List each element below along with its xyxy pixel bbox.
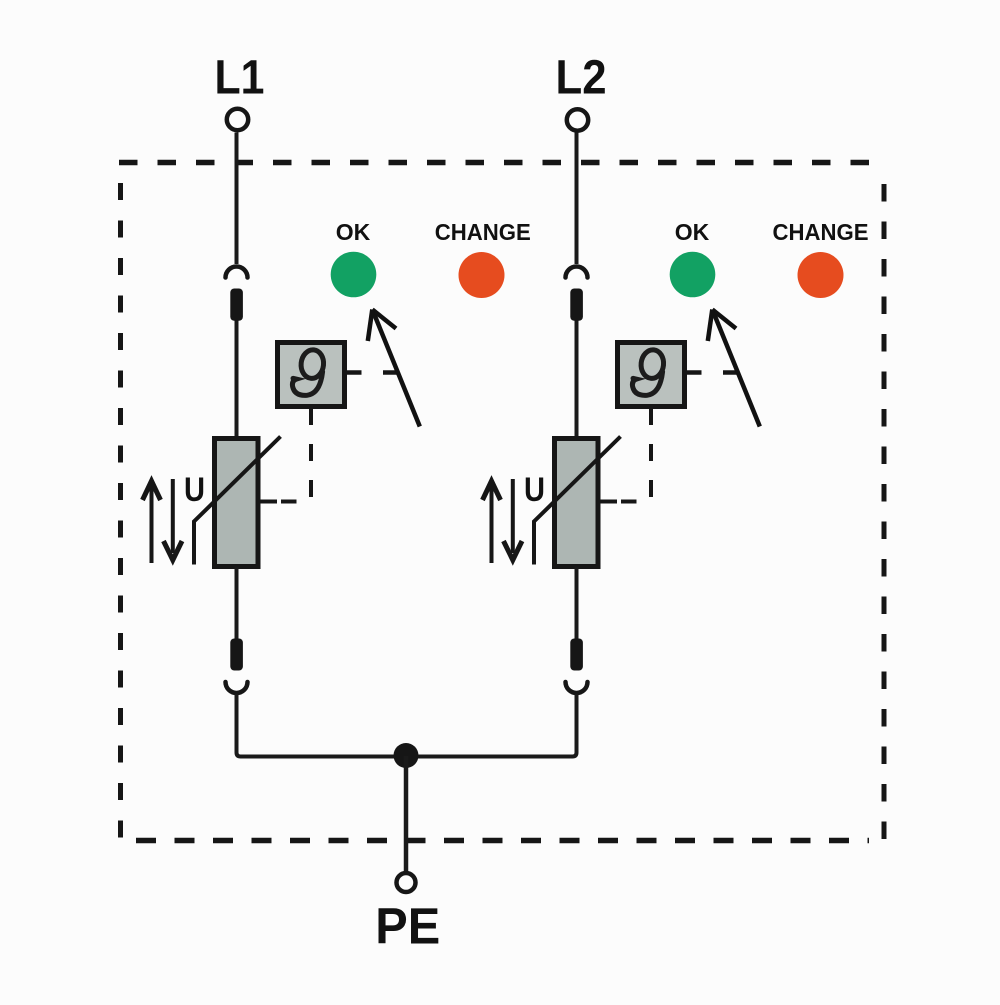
- wire bottom channel 1: [237, 694, 407, 757]
- disconnector arc bottom channel 1: [226, 682, 248, 693]
- theta glyph channel 2: [631, 348, 665, 397]
- varistor diagonal channel 1: [194, 437, 281, 565]
- status arrow channel 1: [368, 310, 420, 427]
- svg-text:PE: PE: [375, 898, 440, 955]
- tab right of sensor box channel 1: [345, 370, 362, 375]
- enclosure dashed border top: [119, 160, 884, 166]
- terminal PE circle: [397, 873, 416, 892]
- disconnector bar top L1: [230, 289, 243, 321]
- voltage up arrow channel 2: [483, 481, 501, 563]
- svg-text:OK: OK: [675, 219, 710, 245]
- disconnector bar bottom channel 2: [570, 639, 583, 671]
- disconnector arc top L1: [226, 267, 248, 278]
- disconnector arc bottom channel 2: [566, 682, 588, 693]
- svg-text:CHANGE: CHANGE: [435, 219, 531, 245]
- wire L1 top: [235, 133, 239, 265]
- svg-text:OK: OK: [336, 219, 371, 245]
- svg-text:U: U: [524, 471, 545, 509]
- LED OK green channel 1: [331, 252, 377, 298]
- status arrow channel 2: [708, 310, 760, 427]
- terminal L1 circle: [227, 109, 248, 130]
- wire junction to PE terminal: [404, 756, 409, 871]
- wire L2 top: [575, 133, 579, 265]
- theta glyph channel 1: [291, 348, 325, 397]
- enclosure dashed border bottom: [136, 838, 869, 844]
- dash of sensor link channel 2: [723, 370, 738, 375]
- svg-text:U: U: [184, 471, 205, 509]
- wire varistor to bottom bar channel 2: [575, 567, 579, 641]
- LED CHANGE red channel 1: [459, 252, 505, 298]
- dashed thermal link channel 1: [281, 408, 311, 502]
- LED CHANGE red channel 2: [798, 252, 844, 298]
- junction node PE: [394, 743, 419, 768]
- temperature sensor box channel 1: [278, 343, 345, 407]
- enclosure dashed border right: [882, 184, 887, 839]
- voltage down arrow channel 2: [504, 479, 523, 560]
- disconnector bar bottom channel 1: [230, 639, 243, 671]
- svg-text:L2: L2: [556, 52, 607, 105]
- svg-text:L1: L1: [215, 52, 265, 105]
- svg-text:CHANGE: CHANGE: [773, 219, 869, 245]
- varistor tab channel 1: [258, 500, 277, 504]
- wire L1 to varistor: [235, 321, 239, 441]
- disconnector arc top L2: [566, 267, 588, 278]
- wire L2 to varistor: [575, 321, 579, 441]
- dash of sensor link channel 1: [383, 370, 398, 375]
- dashed thermal link channel 2: [621, 408, 651, 502]
- voltage up arrow channel 1: [143, 481, 161, 563]
- varistor body channel 2: [555, 439, 599, 567]
- temperature sensor box channel 2: [618, 343, 685, 407]
- enclosure dashed border left: [118, 183, 123, 839]
- varistor diagonal channel 2: [534, 437, 621, 565]
- wire bottom channel 2: [406, 694, 577, 757]
- varistor body channel 1: [215, 439, 259, 567]
- terminal L2 circle: [567, 109, 588, 130]
- tab right of sensor box channel 2: [685, 370, 702, 375]
- disconnector bar top L2: [570, 289, 583, 321]
- wire varistor to bottom bar channel 1: [235, 567, 239, 641]
- LED OK green channel 2: [670, 252, 716, 298]
- varistor tab channel 2: [598, 500, 617, 504]
- voltage down arrow channel 1: [164, 479, 183, 560]
